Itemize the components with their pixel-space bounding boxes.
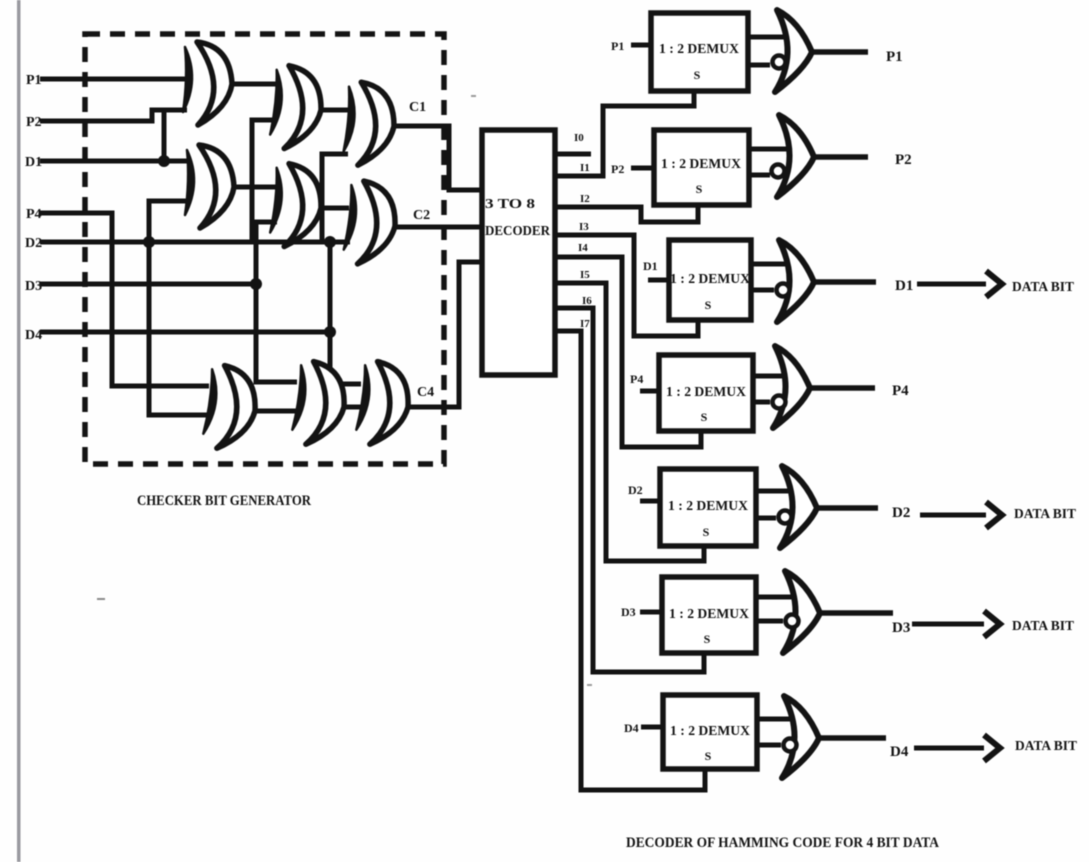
- wire D4 input: [40, 330, 330, 335]
- svg-text:S: S: [701, 410, 708, 424]
- wire demux U4 out upper: [753, 374, 787, 379]
- or gate G4: [773, 346, 810, 428]
- bubble inverted input G6: [786, 615, 799, 628]
- wire decoder output I3 to demux3 select: [555, 235, 698, 336]
- demux U2 box 1:2 demux: [654, 130, 749, 205]
- wire D2 demux input stub: [640, 499, 660, 504]
- demux U5 box 1:2 demux: [660, 469, 756, 546]
- wire riser XOR3 lower feed: [322, 154, 348, 242]
- wire demux U2 out upper: [749, 147, 787, 152]
- svg-text:D3: D3: [621, 605, 636, 619]
- svg-text:S: S: [703, 525, 710, 539]
- svg-text:I3: I3: [579, 221, 589, 233]
- junction D4 end riser: [324, 326, 336, 338]
- wire demux U5 out lower: [756, 516, 776, 521]
- svg-text:C1: C1: [409, 100, 426, 115]
- scan speck near decoder top: [471, 95, 476, 97]
- wire P4 input down to bottom row: [40, 213, 209, 386]
- svg-text:DATA BIT: DATA BIT: [1015, 739, 1078, 754]
- scan speck near demux column: [587, 684, 592, 686]
- demux U7 box 1:2 demux: [663, 695, 757, 769]
- wire XOR3 to XOR5: [321, 108, 349, 113]
- wire demux U6 out upper: [756, 595, 799, 600]
- wire decoder output I4 to demux4 select: [555, 257, 701, 447]
- svg-text:D1: D1: [643, 259, 658, 273]
- xor gate XOR3 (col2 top): [269, 65, 324, 151]
- wire decoder output I5 to demux5 select: [555, 283, 704, 561]
- svg-text:I2: I2: [580, 193, 590, 205]
- svg-text:P1: P1: [611, 39, 624, 53]
- wire XOR1 to XOR3: [232, 82, 276, 87]
- svg-text:CHECKER BIT GENERATOR: CHECKER BIT GENERATOR: [137, 493, 311, 509]
- wire decoder output I1 to demux1 select: [555, 91, 694, 176]
- svg-text:I0: I0: [574, 132, 584, 144]
- svg-text:S: S: [696, 182, 703, 196]
- bubble inverted input G1: [773, 56, 786, 69]
- wire G4 output: [810, 385, 875, 391]
- svg-text:DECODER: DECODER: [485, 224, 551, 239]
- svg-text:DATA BIT: DATA BIT: [1014, 507, 1077, 522]
- bubble inverted input G3: [777, 284, 790, 297]
- svg-text:DECODER OF HAMMING CODE FOR 4: DECODER OF HAMMING CODE FOR 4 BIT DATA: [626, 835, 939, 851]
- wire C1 output to decoder: [394, 126, 484, 190]
- svg-text:P4: P4: [892, 383, 909, 399]
- svg-text:D4: D4: [25, 328, 42, 343]
- wire arrow line D4 data bit: [914, 746, 984, 751]
- demux U3 box 1:2 demux: [669, 240, 751, 320]
- svg-text:S: S: [694, 68, 701, 82]
- bubble inverted input G4: [773, 396, 786, 409]
- svg-text:I4: I4: [578, 242, 588, 254]
- dashed box: checker bit generator: [85, 34, 444, 464]
- xor gate XOR8 (bottom row 2): [291, 360, 348, 448]
- wire G3 output: [814, 279, 876, 285]
- wire arrow line D1 data bit: [917, 282, 986, 287]
- wire riser D1 to P2 feed: [162, 110, 167, 161]
- svg-text:1 : 2 DEMUX: 1 : 2 DEMUX: [659, 42, 739, 57]
- svg-text:D2: D2: [25, 236, 42, 251]
- junction D3 end riser: [250, 278, 262, 290]
- xor gate XOR4 (col2 bottom): [269, 163, 324, 249]
- svg-text:S: S: [705, 298, 712, 312]
- demux U6 box 1:2 demux: [662, 577, 756, 653]
- wire XOR8 to XOR9: [344, 405, 361, 410]
- wire C2 output to decoder: [395, 225, 484, 230]
- wire demux U2 out lower: [749, 173, 770, 178]
- scan edge line: [17, 0, 21, 862]
- bubble inverted input G5: [779, 511, 792, 524]
- wire riser D2 down to XOR7 lower input: [149, 242, 211, 415]
- xor gate XOR2 (D1 row): [185, 145, 234, 228]
- wire riser D2/D4 down to XOR9 upper input: [330, 242, 361, 384]
- wire decoder output I7 to demux7 select: [555, 331, 705, 790]
- svg-text:C4: C4: [417, 385, 434, 400]
- or gate G6: [783, 571, 820, 653]
- wire demux U5 out upper: [756, 489, 792, 494]
- wire D3 input: [40, 282, 256, 287]
- arrowhead D2 data bit: [986, 502, 1002, 528]
- wire D1 input: [40, 159, 188, 164]
- svg-text:C2: C2: [413, 208, 430, 223]
- wire D4 demux input stub: [641, 725, 663, 730]
- wire G5 output: [817, 505, 878, 511]
- svg-text:I5: I5: [580, 269, 590, 281]
- wire arrow line D2 data bit: [920, 513, 986, 518]
- svg-text:D4: D4: [890, 744, 909, 760]
- svg-text:S: S: [704, 632, 711, 646]
- wire C4 output to decoder: [408, 262, 484, 407]
- wire decoder output I0 stub: [555, 152, 591, 157]
- xor gate XOR1 (P1 row): [183, 42, 232, 125]
- svg-text:P1: P1: [26, 73, 42, 88]
- arrowhead D1 data bit: [986, 271, 1002, 297]
- svg-text:P2: P2: [611, 162, 624, 176]
- svg-text:D3: D3: [892, 620, 910, 636]
- wire demux U1 out upper: [748, 35, 787, 40]
- or gate G3: [777, 240, 814, 322]
- or gate G2: [777, 115, 814, 197]
- svg-text:1 : 2 DEMUX: 1 : 2 DEMUX: [670, 272, 750, 287]
- svg-text:1 : 2 DEMUX: 1 : 2 DEMUX: [670, 724, 750, 739]
- wire arrow line D3 data bit: [912, 622, 984, 627]
- svg-text:I7: I7: [580, 318, 590, 330]
- wire G1 output: [812, 49, 868, 55]
- or gate G5: [780, 466, 817, 548]
- junction D2-left riser: [143, 236, 155, 248]
- svg-text:1 : 2 DEMUX: 1 : 2 DEMUX: [661, 157, 741, 172]
- wire riser D3 down to XOR8 upper input: [256, 284, 297, 382]
- svg-text:D1: D1: [895, 278, 913, 294]
- wire riser D3 up to XOR4 lower input: [256, 222, 277, 284]
- svg-text:I6: I6: [582, 295, 592, 307]
- wire G6 output: [820, 610, 893, 616]
- svg-text:D4: D4: [624, 721, 639, 735]
- svg-text:P2: P2: [895, 152, 912, 168]
- svg-text:P2: P2: [26, 115, 42, 130]
- or gate G7r: [782, 696, 819, 778]
- wire XOR7 to XOR8: [255, 409, 297, 414]
- scan speck near left box bottom: [97, 598, 105, 600]
- wire XOR2 lower input feed: [149, 201, 189, 242]
- svg-text:P4: P4: [26, 207, 42, 222]
- bubble inverted input G7r: [784, 739, 797, 752]
- xor gate XOR9 (C4 output): [355, 360, 412, 448]
- wire D2 input: [40, 240, 350, 245]
- wire demux U3 out upper: [751, 262, 790, 267]
- wire D1 demux input stub: [648, 278, 669, 283]
- wire demux U7 out upper: [757, 717, 794, 722]
- junction D1-riser: [158, 155, 170, 167]
- wire demux U1 out lower: [748, 63, 770, 68]
- svg-text:D2: D2: [628, 483, 643, 497]
- wire decoder output I6 to demux6 select: [555, 308, 704, 672]
- demux U4 box 1:2 demux: [659, 355, 753, 431]
- svg-text:I1: I1: [580, 162, 590, 174]
- wire P1 input: [40, 77, 186, 82]
- svg-text:D3: D3: [25, 279, 42, 294]
- wire demux U3 out lower: [751, 288, 774, 293]
- wire XOR4 to XOR6: [321, 206, 349, 211]
- wire riser XOR1 lower feed from D2 cross: [252, 120, 277, 242]
- svg-text:3 TO 8: 3 TO 8: [485, 197, 535, 212]
- or gate G1: [775, 10, 812, 92]
- demux U1 box 1:2 demux: [651, 13, 748, 91]
- arrowhead D4 data bit: [984, 735, 1000, 761]
- xor gate XOR5 (C1 output): [343, 81, 396, 166]
- svg-text:P1: P1: [886, 49, 903, 65]
- arrowhead D3 data bit: [984, 611, 1000, 637]
- wire G2 output: [814, 154, 868, 160]
- svg-text:DATA BIT: DATA BIT: [1012, 280, 1075, 295]
- wire P4 demux input stub: [640, 389, 659, 394]
- wire XOR2 to XOR4: [234, 185, 276, 190]
- wire P2 demux input stub: [631, 166, 654, 171]
- svg-text:P4: P4: [630, 372, 643, 386]
- svg-text:S: S: [705, 749, 712, 763]
- wire P1 demux input stub: [631, 43, 651, 48]
- svg-text:1 : 2 DEMUX: 1 : 2 DEMUX: [668, 499, 748, 514]
- svg-text:1 : 2 DEMUX: 1 : 2 DEMUX: [669, 607, 749, 622]
- svg-text:1 : 2 DEMUX: 1 : 2 DEMUX: [666, 385, 746, 400]
- xor gate XOR6 (C2 output): [343, 180, 399, 267]
- wire decoder output I2 to demux2 select: [555, 205, 698, 222]
- wire D3 demux input stub: [640, 610, 662, 615]
- svg-text:D1: D1: [25, 155, 42, 170]
- svg-text:DATA BIT: DATA BIT: [1012, 619, 1075, 634]
- junction D2 mid riser: [324, 236, 336, 248]
- wire demux U4 out lower: [753, 400, 770, 405]
- xor gate XOR7 (bottom row 1): [202, 364, 259, 452]
- wire demux U6 out lower: [756, 619, 783, 624]
- svg-text:D2: D2: [892, 505, 910, 521]
- bubble inverted input G2: [772, 165, 785, 178]
- wire G7r output: [819, 735, 886, 741]
- decoder box 3 to 8: [482, 130, 555, 375]
- wire demux U7 out lower: [757, 743, 781, 748]
- wire P2 input with jog up: [40, 110, 187, 121]
